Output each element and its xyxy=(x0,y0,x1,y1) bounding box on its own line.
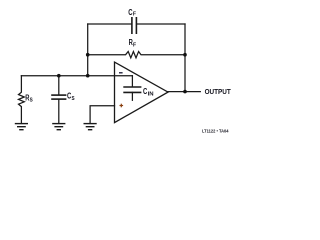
capacitor CIN plates xyxy=(124,87,141,92)
wire: right feedback vertical xyxy=(184,24,186,92)
resistor RS (vertical zigzag) xyxy=(19,76,25,123)
capacitor CIN bottom stub xyxy=(131,92,133,100)
wire: input line (inverting) xyxy=(21,75,132,77)
label CF xyxy=(128,8,136,18)
label RF xyxy=(129,38,137,48)
node: RF rail left junction xyxy=(86,53,90,57)
capacitor CF plates xyxy=(132,18,137,33)
wire: output xyxy=(168,91,200,93)
label RS xyxy=(25,93,33,103)
node: output junction xyxy=(183,90,187,94)
svg-text:F: F xyxy=(133,42,137,48)
svg-text:S: S xyxy=(72,96,75,102)
capacitor CS leads xyxy=(58,76,60,95)
svg-text:OUTPUT: OUTPUT xyxy=(205,87,231,96)
op-amp plus sign xyxy=(120,104,124,108)
node: CS junction on input line xyxy=(57,74,61,78)
label CS xyxy=(67,92,75,102)
node: feedback junction on input line xyxy=(86,74,90,78)
node: RF rail right junction xyxy=(183,53,187,57)
svg-text:F: F xyxy=(133,12,137,18)
wire: non-inverting input to ground xyxy=(90,106,114,123)
wire: C_F top rail left segment xyxy=(88,23,131,25)
capacitor CS plates xyxy=(52,95,66,99)
resistor RF (zigzag) with rail leads xyxy=(88,52,185,58)
svg-text:IN: IN xyxy=(148,92,154,98)
op-amp minus sign xyxy=(119,72,123,74)
capacitor CIN inside op-amp: top lead xyxy=(131,76,133,87)
svg-text:LT1122 • TA04: LT1122 • TA04 xyxy=(202,128,229,133)
op-amp U1 triangle xyxy=(115,62,169,123)
ground under RS xyxy=(16,124,28,130)
label CIN xyxy=(143,87,154,97)
wire: C_F top rail right segment xyxy=(137,23,185,25)
wire: left feedback vertical xyxy=(87,24,89,76)
ground under CS xyxy=(53,124,65,130)
ground under + input xyxy=(84,124,96,130)
svg-text:S: S xyxy=(30,98,33,104)
